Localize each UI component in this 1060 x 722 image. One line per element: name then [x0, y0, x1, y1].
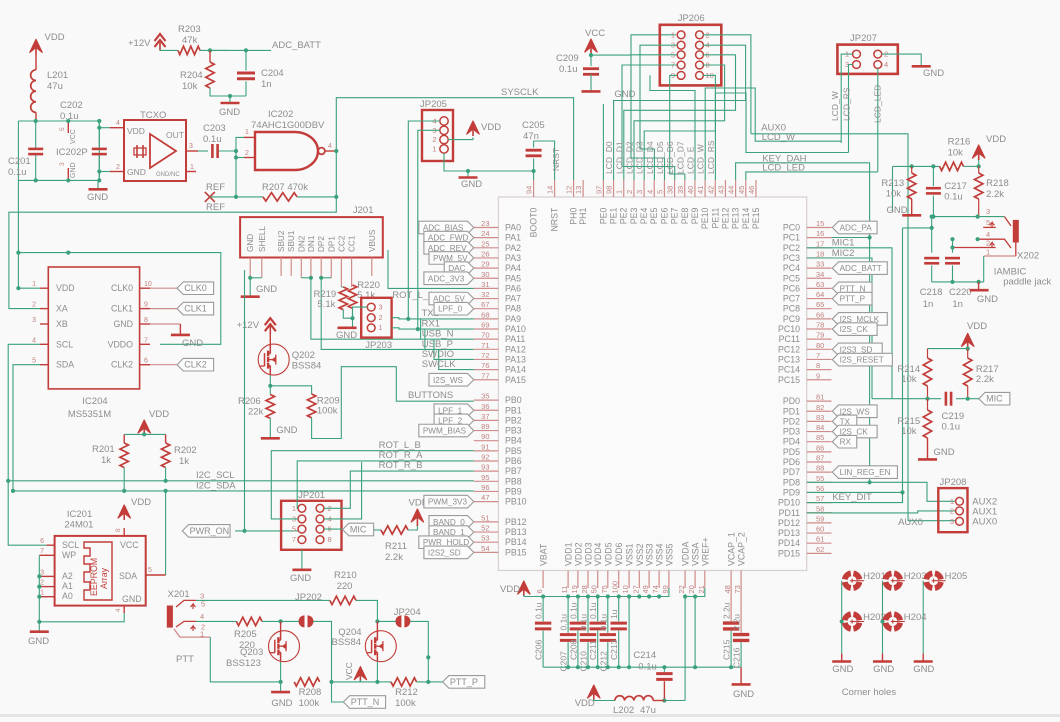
svg-text:H205: H205: [945, 571, 968, 582]
wire DP pair to USB_P: [321, 277, 331, 279]
label CLK2: [177, 358, 214, 371]
wire JP205 pin1 to GND rail: [444, 153, 534, 171]
svg-text:JP206: JP206: [678, 13, 705, 24]
wire paddle sleeve to GND rail: [932, 281, 984, 283]
wire IC204 SDA down: [13, 365, 40, 491]
resistor R206: [266, 395, 274, 419]
svg-text:PA14: PA14: [505, 365, 526, 375]
wire IC204 SCL to I2C_SCL: [8, 344, 46, 545]
svg-text:3: 3: [950, 517, 954, 526]
svg-text:PE14: PE14: [741, 208, 751, 230]
svg-text:97: 97: [594, 186, 603, 194]
svg-text:3: 3: [635, 190, 644, 194]
svg-text:2.2k: 2.2k: [986, 189, 1004, 200]
svg-text:PA11: PA11: [505, 334, 525, 344]
labels BAND_0 BAND_1 PWR_HOLD I2S2_SD: [429, 516, 474, 529]
wire BOOT0 to GND rail: [533, 171, 535, 180]
svg-text:VSS5: VSS5: [664, 543, 674, 566]
svg-text:30: 30: [481, 270, 489, 279]
svg-text:92: 92: [481, 453, 489, 462]
svg-text:79: 79: [816, 331, 824, 340]
svg-text:PH1: PH1: [578, 208, 588, 225]
svg-text:10k: 10k: [948, 148, 964, 159]
svg-text:24: 24: [481, 229, 489, 238]
svg-text:1n: 1n: [923, 299, 934, 310]
svg-text:2.2u: 2.2u: [732, 614, 742, 631]
capacitor C218: [924, 257, 939, 260]
svg-text:PA8: PA8: [505, 304, 521, 314]
svg-text:GND: GND: [887, 205, 908, 216]
power flag VDD (rail): [523, 585, 525, 596]
resistor R218: [978, 166, 980, 173]
resistor R203: [178, 46, 200, 54]
pins top BOOT0 NRST PH0 PH1: [533, 180, 535, 197]
wire VDD rail bottom: [523, 595, 525, 597]
svg-text:GND: GND: [70, 162, 77, 178]
svg-text:39: 39: [676, 186, 685, 194]
wire JP206 pin7 to LCD_D6: [622, 65, 677, 180]
power flag VDD (R201/R202): [143, 424, 145, 435]
svg-text:A0: A0: [62, 591, 73, 601]
wire JP203 pin2 TX1: [392, 318, 474, 319]
svg-text:2: 2: [950, 506, 954, 515]
ground H205: [922, 654, 924, 662]
wire R219/R220 bottoms: [343, 310, 352, 319]
svg-text:0.1u: 0.1u: [203, 134, 222, 145]
svg-text:16: 16: [816, 229, 824, 238]
pin 1 TCXO NC: [186, 171, 196, 173]
svg-text:VDD: VDD: [575, 698, 595, 709]
capacitor C216: [740, 588, 742, 633]
svg-text:PE11: PE11: [710, 208, 720, 229]
svg-text:PE8: PE8: [680, 208, 690, 225]
wire JP204 pads: [377, 620, 396, 622]
svg-text:PH0: PH0: [569, 208, 579, 225]
wire JP203 pin3 to R220 bottom: [353, 307, 368, 318]
capacitor C205: [533, 159, 535, 172]
svg-text:78: 78: [816, 321, 824, 330]
junction C217 top: [931, 164, 935, 168]
svg-text:IC202: IC202: [268, 109, 293, 120]
pin 2 IC202: [244, 157, 255, 159]
wire PD9 net: [807, 491, 903, 493]
svg-text:I2S2_SD: I2S2_SD: [428, 548, 461, 557]
svg-text:PC13: PC13: [778, 354, 800, 364]
svg-text:R204: R204: [180, 70, 203, 81]
svg-text:0.1u: 0.1u: [942, 422, 961, 433]
wire left vertical C201 box: [17, 121, 19, 180]
wire VDDA column down: [684, 597, 686, 701]
wire MIC2 (PC3): [807, 258, 872, 399]
svg-text:22: 22: [677, 585, 686, 593]
svg-text:47: 47: [481, 493, 489, 502]
svg-text:47k: 47k: [182, 35, 198, 46]
svg-text:98: 98: [605, 186, 614, 194]
svg-text:7: 7: [144, 337, 148, 344]
wire JP207 pin2 to GND: [882, 54, 922, 66]
wire IC201 GND down: [39, 613, 124, 622]
resistor R215: [927, 399, 929, 410]
svg-text:1n: 1n: [261, 79, 272, 90]
svg-text:5: 5: [655, 190, 664, 194]
svg-text:A2: A2: [62, 571, 73, 581]
labels PTT_N PTT_P (PC6 PC7): [832, 282, 872, 295]
wire C203 to NAND input node: [219, 150, 236, 152]
svg-text:PE3: PE3: [629, 208, 639, 225]
capacitor C210: [587, 597, 589, 633]
svg-text:1: 1: [379, 325, 383, 332]
wire +12V to R203: [160, 49, 178, 51]
svg-text:LCD_D5: LCD_D5: [655, 141, 665, 174]
svg-text:10: 10: [621, 585, 630, 593]
svg-text:PC7: PC7: [783, 294, 800, 304]
wire CC2 to R219: [341, 286, 343, 288]
svg-text:JP201: JP201: [298, 490, 325, 501]
svg-text:54: 54: [481, 544, 489, 553]
svg-text:23: 23: [481, 219, 489, 228]
junction Q203 source rail: [279, 680, 283, 684]
svg-text:GND: GND: [122, 594, 142, 604]
svg-text:VREF+: VREF+: [700, 537, 710, 566]
svg-text:95: 95: [481, 473, 489, 482]
label ADC_BATT (PC4): [832, 262, 887, 275]
power pins IC202P: [67, 121, 69, 133]
svg-text:72: 72: [481, 351, 489, 360]
svg-text:VSS2: VSS2: [635, 543, 645, 566]
svg-text:BOOT0: BOOT0: [529, 208, 539, 238]
svg-text:LCD_W: LCD_W: [762, 132, 795, 143]
wire VDD rail keyer: [893, 165, 940, 167]
wire mic node rail: [927, 386, 929, 399]
wire Q202 junction to R209: [270, 386, 311, 394]
svg-text:PC0: PC0: [783, 223, 800, 233]
svg-text:PB8: PB8: [505, 476, 522, 486]
junction Q204 gate node: [375, 619, 379, 623]
svg-text:XB: XB: [56, 319, 68, 329]
ground C209: [582, 90, 601, 93]
svg-text:31: 31: [481, 280, 489, 289]
wire R205 to Q203 drain node: [262, 620, 281, 622]
wire VDDA rail: [685, 588, 705, 597]
svg-text:6: 6: [40, 538, 44, 545]
svg-text:H202: H202: [863, 612, 886, 623]
svg-text:1n: 1n: [952, 299, 963, 310]
junction PTT_N node: [329, 680, 333, 684]
mounting hole H204: [894, 614, 900, 620]
svg-text:PA13: PA13: [505, 354, 526, 364]
svg-text:LCD_D0: LCD_D0: [604, 141, 614, 174]
svg-text:GND: GND: [873, 664, 894, 675]
svg-text:DN2: DN2: [297, 235, 306, 252]
svg-text:BSS84: BSS84: [332, 637, 362, 648]
svg-text:LIN_REG_EN: LIN_REG_EN: [840, 468, 891, 477]
pins PE0-PE15: [602, 180, 604, 197]
svg-text:VDD1: VDD1: [564, 542, 574, 566]
svg-text:I2C_SDA: I2C_SDA: [196, 481, 236, 492]
svg-text:PB7: PB7: [505, 466, 522, 476]
svg-text:0.1u: 0.1u: [568, 602, 578, 619]
wire JP206 pin6 to LCD_D1: [624, 55, 736, 180]
svg-text:11: 11: [560, 586, 569, 594]
capacitor C215: [730, 588, 732, 621]
pin 6 IC201 SCL: [47, 544, 55, 546]
svg-text:8: 8: [816, 361, 820, 370]
svg-text:PC12: PC12: [778, 344, 800, 354]
svg-text:H204: H204: [904, 612, 927, 623]
svg-text:GND: GND: [977, 294, 998, 305]
resistor R213: [911, 166, 913, 173]
svg-text:R206: R206: [238, 396, 261, 407]
svg-text:L201: L201: [47, 70, 68, 81]
svg-text:R213: R213: [881, 178, 904, 189]
svg-text:3: 3: [59, 162, 66, 166]
svg-text:Q203: Q203: [240, 647, 263, 658]
svg-text:JP205: JP205: [420, 99, 447, 110]
resistor R207: [263, 193, 297, 201]
svg-text:VDD: VDD: [45, 32, 65, 43]
svg-text:PD6: PD6: [783, 457, 800, 467]
wire R211 to VDD: [408, 526, 417, 530]
wire R210 to Q204 gate node: [356, 600, 377, 621]
svg-text:75: 75: [600, 585, 609, 593]
resistor R212: [391, 678, 417, 686]
svg-text:SCL: SCL: [56, 339, 73, 349]
svg-text:63: 63: [816, 280, 824, 289]
svg-text:42: 42: [706, 186, 715, 194]
svg-text:I2C_SCL: I2C_SCL: [196, 470, 235, 481]
svg-text:PB1: PB1: [505, 405, 522, 415]
svg-text:LCD_D3: LCD_D3: [635, 141, 645, 174]
wire H201/H202 column: [841, 581, 843, 654]
capacitor C202: [98, 121, 100, 148]
svg-text:59: 59: [816, 514, 824, 523]
wire C202 rail to TCXO GND: [99, 171, 110, 173]
capacitor C203: [211, 144, 214, 158]
ground R204/C204: [229, 96, 231, 103]
wire Q203 source to rail: [280, 662, 282, 682]
wire rail down to pin3 line: [892, 166, 894, 211]
label LIN_REG_EN (PD7): [832, 466, 897, 479]
junction L201/C201 rail: [34, 119, 38, 123]
wire MIC1 (PC2): [807, 248, 892, 399]
svg-text:PA3: PA3: [505, 253, 521, 263]
wire TCXO OUT to C203: [198, 150, 208, 152]
svg-text:MIC: MIC: [986, 394, 1003, 404]
svg-text:1: 1: [245, 129, 249, 136]
svg-text:PA6: PA6: [505, 283, 521, 293]
wire PWR_ON to JP201 pin5: [235, 530, 298, 532]
wire right vertical C202 box: [98, 121, 100, 180]
wire NAND output down to R207: [335, 151, 337, 197]
svg-text:PA0: PA0: [505, 223, 521, 233]
svg-text:Q202: Q202: [292, 350, 315, 361]
svg-text:SCL: SCL: [62, 540, 79, 550]
wire L202 to C214 node: [664, 700, 685, 702]
svg-text:C209: C209: [556, 53, 579, 64]
wire pin4 line from R218: [976, 237, 980, 241]
svg-text:PB10: PB10: [505, 497, 527, 507]
wire paddle tip line: [933, 216, 1004, 218]
svg-text:CLK0: CLK0: [184, 283, 207, 293]
capacitor C207: [567, 597, 569, 633]
svg-text:VDD: VDD: [131, 497, 151, 508]
svg-text:27: 27: [631, 585, 640, 593]
svg-text:28: 28: [580, 585, 589, 593]
svg-text:PA12: PA12: [505, 344, 526, 354]
capacitor C219: [945, 392, 948, 406]
svg-text:X201: X201: [168, 589, 190, 600]
svg-text:PE7: PE7: [670, 208, 680, 225]
svg-text:VCC: VCC: [70, 129, 77, 144]
mounting hole H205: [935, 573, 941, 579]
svg-text:CC1: CC1: [348, 235, 357, 252]
svg-text:Corner holes: Corner holes: [842, 687, 897, 698]
resistor R205: [236, 617, 262, 625]
svg-text:6: 6: [144, 358, 148, 365]
resistor R209: [307, 394, 315, 418]
svg-text:1: 1: [432, 144, 436, 153]
wire RX1 to USB_P jog: [424, 329, 426, 349]
wire VDD rail to MS5351M: [18, 180, 40, 288]
junction RX1/JP205: [416, 327, 420, 331]
svg-text:15: 15: [816, 219, 824, 228]
mounting hole H203: [894, 573, 900, 579]
svg-text:1k: 1k: [101, 455, 111, 466]
svg-text:X202: X202: [1017, 251, 1039, 262]
svg-text:PD7: PD7: [783, 467, 800, 477]
svg-text:PC8: PC8: [783, 304, 800, 314]
svg-text:47u: 47u: [47, 81, 63, 92]
wire KEY column to C218: [903, 227, 932, 229]
svg-text:C214: C214: [633, 650, 656, 661]
svg-text:7: 7: [816, 351, 820, 360]
svg-text:ADC_3V3: ADC_3V3: [428, 274, 465, 283]
svg-text:C202: C202: [60, 100, 83, 111]
wire AUX0 column to JP208 pin3: [908, 520, 956, 522]
svg-text:VSS1: VSS1: [625, 543, 635, 566]
svg-text:PD14: PD14: [778, 538, 800, 548]
svg-text:GND: GND: [832, 664, 853, 675]
junction C201 bottom: [34, 178, 38, 182]
svg-text:SWCLK: SWCLK: [422, 359, 456, 370]
ground Q203: [280, 682, 282, 692]
svg-text:10k: 10k: [901, 426, 917, 437]
svg-text:CLK2: CLK2: [184, 360, 207, 370]
svg-text:H203: H203: [904, 571, 927, 582]
svg-text:20: 20: [687, 585, 696, 593]
svg-text:JP202: JP202: [295, 592, 322, 603]
svg-text:Array: Array: [99, 567, 109, 589]
svg-text:C206: C206: [534, 639, 544, 660]
svg-text:PE0: PE0: [598, 208, 608, 225]
svg-text:R208: R208: [299, 687, 322, 698]
connector JP205: [422, 110, 453, 161]
svg-text:LCD_W: LCD_W: [830, 91, 840, 121]
wire R212 to PTT_P node: [377, 681, 391, 683]
svg-text:3: 3: [32, 317, 36, 324]
wire JP206 pin5 to LCD_D5: [631, 55, 677, 180]
svg-text:RX: RX: [840, 438, 852, 447]
wire node to NAND pin2 and REF: [235, 151, 237, 197]
svg-text:71: 71: [481, 341, 489, 350]
svg-text:PB9: PB9: [505, 486, 522, 496]
svg-text:MIC: MIC: [350, 525, 367, 535]
wire R204/C204 bottoms: [210, 88, 246, 96]
resistor R211: [381, 526, 408, 534]
wire LCD_D0 long column: [602, 104, 604, 180]
svg-text:PTT_P: PTT_P: [840, 295, 866, 304]
svg-text:82: 82: [816, 403, 824, 412]
capacitor C212: [607, 597, 609, 633]
pins bottom power: [542, 571, 544, 589]
svg-text:VBAT: VBAT: [539, 543, 549, 566]
svg-text:PD5: PD5: [783, 447, 800, 457]
svg-text:0.1u: 0.1u: [579, 614, 589, 631]
svg-text:VDD: VDD: [500, 584, 520, 595]
ground JP201: [301, 550, 303, 570]
svg-text:VCAP_1: VCAP_1: [727, 532, 737, 566]
svg-text:62: 62: [816, 545, 824, 554]
svg-text:GND: GND: [28, 636, 49, 647]
capacitor C217: [932, 166, 934, 186]
resistor R201: [123, 434, 125, 443]
junction C205 bottom / BOOT0: [532, 169, 536, 173]
junction KEY_DAH column PD8: [868, 480, 872, 484]
wire DN pair to USB_N: [301, 277, 311, 279]
svg-text:C215: C215: [722, 639, 732, 660]
label PWR_ON: [182, 525, 230, 538]
svg-text:VSSA: VSSA: [691, 542, 701, 566]
ground H203 H204: [882, 654, 884, 662]
svg-text:22k: 22k: [248, 407, 264, 418]
wire KEY_DAH to PC1: [807, 237, 870, 239]
svg-text:5: 5: [32, 358, 36, 365]
svg-text:PD10: PD10: [778, 498, 800, 508]
capacitor C208: [577, 597, 579, 622]
svg-text:R212: R212: [395, 687, 418, 698]
svg-text:80: 80: [816, 341, 824, 350]
svg-text:2.2u: 2.2u: [722, 602, 732, 619]
wire to ADC_BATT label: [210, 49, 271, 51]
wire LCD_LED net: [746, 172, 878, 180]
oscillator TCXO: [124, 120, 186, 181]
svg-text:R201: R201: [92, 444, 115, 455]
svg-text:0.1u: 0.1u: [534, 602, 544, 619]
svg-text:LCD_D2: LCD_D2: [624, 141, 634, 174]
svg-text:LCD_E: LCD_E: [686, 146, 696, 174]
labels ADC_BIAS..LPF_0 (PA): [419, 221, 474, 234]
svg-text:18: 18: [816, 249, 824, 258]
svg-text:77: 77: [481, 371, 489, 380]
svg-text:10k: 10k: [886, 189, 902, 200]
junction I2C_SDA: [11, 489, 15, 493]
svg-text:ADC_BATT: ADC_BATT: [272, 40, 321, 51]
svg-text:17: 17: [816, 239, 824, 248]
svg-text:VDD4: VDD4: [593, 542, 603, 566]
svg-text:C208: C208: [568, 639, 578, 660]
svg-text:PB14: PB14: [505, 537, 527, 547]
svg-text:GND: GND: [923, 68, 944, 79]
svg-text:PE2: PE2: [619, 208, 629, 225]
wire JP206 pin3 to LCD_D4: [640, 45, 677, 180]
wire R202 to I2C_SCL: [165, 468, 167, 481]
svg-text:9: 9: [144, 302, 148, 309]
wire +12V to Q202: [269, 334, 271, 344]
capacitor C206: [542, 597, 544, 622]
wire JP207 pin3 LCD_RS column: [849, 65, 853, 153]
svg-text:GND: GND: [113, 319, 133, 329]
pin 3 TCXO OUT: [186, 150, 198, 152]
